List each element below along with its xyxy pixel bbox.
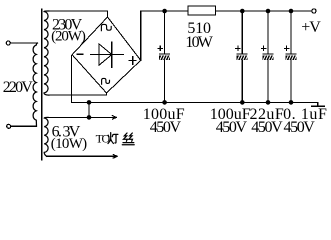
svg-text:450V: 450V [150,119,182,136]
svg-text:450V: 450V [251,119,283,136]
svg-text:450V: 450V [284,119,316,136]
svg-text:450V: 450V [216,119,248,136]
svg-text:220V: 220V [3,79,34,96]
svg-text:(10W): (10W) [51,136,87,152]
svg-text:(20W): (20W) [51,29,86,45]
svg-text:10W: 10W [185,34,213,51]
svg-text:+V: +V [301,19,321,36]
